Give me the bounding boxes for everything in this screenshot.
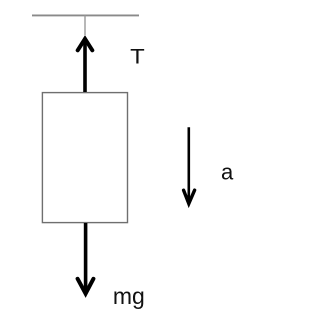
arrowhead of a (down) <box>184 190 195 203</box>
arrowhead of T (up) <box>78 39 93 51</box>
string (thin vertical line from ceiling to arrow tip) <box>84 15 86 35</box>
wire: weight arrow mg shaft <box>84 223 88 292</box>
svg-text:a: a <box>221 160 234 185</box>
ceiling line <box>32 14 139 16</box>
svg-text:T: T <box>130 45 145 69</box>
svg-text:mg: mg <box>113 283 145 309</box>
box (hanging mass) <box>42 93 127 223</box>
wire: acceleration arrow a shaft <box>188 127 191 202</box>
arrowhead of mg (down) <box>78 279 94 294</box>
wire: tension arrow T shaft <box>83 41 87 92</box>
